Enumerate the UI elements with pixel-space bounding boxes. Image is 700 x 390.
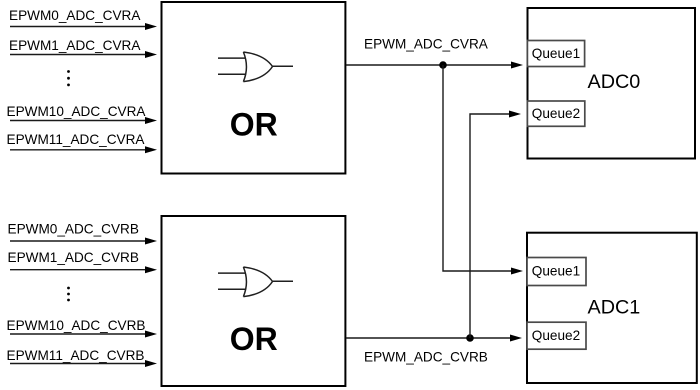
label EPWM1_ADC_CVRB [8, 250, 139, 265]
wire EPWM11_ADC_CVRA with arrowhead [10, 146, 157, 153]
wire EPWM0_ADC_CVRA with arrowhead [10, 23, 157, 30]
svg-text:Queue1: Queue1 [532, 46, 580, 61]
svg-text:EPWM0_ADC_CVRA: EPWM0_ADC_CVRA [9, 8, 141, 23]
svg-text:ADC1: ADC1 [588, 297, 641, 319]
label OR (U2) [230, 321, 278, 357]
queue box ADC0 Queue2 [527, 101, 584, 126]
wire EPWM1_ADC_CVRA with arrowhead [10, 51, 157, 58]
OR block U1 (top) [162, 2, 346, 174]
label EPWM10_ADC_CVRB [7, 318, 146, 333]
svg-text:EPWM10_ADC_CVRA: EPWM10_ADC_CVRA [7, 104, 147, 119]
wire CVRA branch down [443, 65, 523, 275]
svg-text:Queue1: Queue1 [532, 264, 580, 279]
ellipsis dots bottom group [67, 287, 70, 302]
label EPWM0_ADC_CVRB [8, 222, 139, 237]
wire EPWM11_ADC_CVRB with arrowhead [10, 360, 157, 367]
svg-text:Queue2: Queue2 [532, 328, 580, 343]
svg-text:EPWM0_ADC_CVRB: EPWM0_ADC_CVRB [8, 222, 139, 237]
svg-text:Queue2: Queue2 [532, 106, 580, 121]
wire CVRB branch up [470, 111, 521, 339]
svg-text:EPWM_ADC_CVRA: EPWM_ADC_CVRA [364, 36, 489, 51]
svg-text:EPWM11_ADC_CVRB: EPWM11_ADC_CVRB [7, 348, 145, 363]
label Queue2 (ADC0) [532, 106, 580, 121]
svg-text:EPWM11_ADC_CVRA: EPWM11_ADC_CVRA [7, 132, 146, 147]
wire EPWM_ADC_CVRA (U1 output to ADC0 Queue1) [346, 62, 523, 69]
svg-text:EPWM_ADC_CVRB: EPWM_ADC_CVRB [364, 349, 488, 364]
label EPWM10_ADC_CVRA [7, 104, 147, 119]
or-gate symbol in U1 [218, 52, 293, 82]
ADC0 block [528, 8, 696, 159]
junction dot node CVRA [439, 61, 447, 69]
label OR (U1) [230, 106, 278, 142]
queue box ADC1 Queue2 [527, 322, 586, 349]
wire EPWM0_ADC_CVRB with arrowhead [10, 238, 157, 245]
label EPWM1_ADC_CVRA [9, 38, 141, 53]
label Queue1 (ADC1) [532, 264, 580, 279]
label ADC1 [588, 297, 641, 319]
svg-text:EPWM10_ADC_CVRB: EPWM10_ADC_CVRB [7, 318, 146, 333]
label EPWM11_ADC_CVRA [7, 132, 146, 147]
junction dot node CVRB [466, 334, 474, 342]
queue box ADC0 Queue1 [527, 41, 584, 67]
label EPWM0_ADC_CVRA [9, 8, 141, 23]
svg-text:OR: OR [230, 106, 278, 142]
svg-text:OR: OR [230, 321, 278, 357]
or-gate symbol in U2 [218, 267, 293, 297]
net label EPWM_ADC_CVRB [364, 349, 488, 364]
label Queue1 (ADC0) [532, 46, 580, 61]
queue box ADC1 Queue1 [527, 258, 586, 286]
wire EPWM10_ADC_CVRA with arrowhead [10, 117, 157, 124]
wire EPWM1_ADC_CVRB with arrowhead [10, 266, 157, 273]
label EPWM11_ADC_CVRB [7, 348, 145, 363]
ADC1 block [527, 233, 697, 383]
svg-text:ADC0: ADC0 [588, 71, 641, 93]
svg-text:EPWM1_ADC_CVRA: EPWM1_ADC_CVRA [9, 38, 141, 53]
wire EPWM_ADC_CVRB (U2 output to ADC1 Queue2) [346, 335, 522, 342]
wire EPWM10_ADC_CVRB with arrowhead [10, 331, 157, 338]
ellipsis dots top group [67, 70, 70, 86]
OR block U2 (bottom) [162, 216, 346, 386]
label ADC0 [588, 71, 641, 93]
svg-text:EPWM1_ADC_CVRB: EPWM1_ADC_CVRB [8, 250, 139, 265]
label Queue2 (ADC1) [532, 328, 580, 343]
net label EPWM_ADC_CVRA [364, 36, 489, 51]
